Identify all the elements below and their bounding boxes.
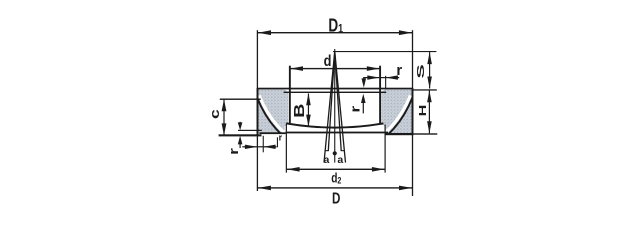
svg-text:r: r xyxy=(227,148,242,155)
dimension B shaft xyxy=(308,94,309,127)
bottom recess line M2 xyxy=(286,132,388,134)
dimension D1 arrow right xyxy=(399,30,412,35)
dimension d2 arrow right xyxy=(372,167,385,172)
dimension r top down arrow xyxy=(362,78,367,87)
S/H top reference line xyxy=(413,89,437,90)
dimension d arrow left xyxy=(290,66,303,71)
sphere surface arc left xyxy=(257,98,280,133)
r left horizontal arrow pointing right xyxy=(245,145,257,149)
dimension c shaft xyxy=(223,99,224,135)
dimension D1 arrow left xyxy=(258,30,271,35)
outer edge / extension line left xyxy=(257,30,258,191)
svg-text:D: D xyxy=(332,191,340,208)
angle line base serif right xyxy=(341,150,345,151)
angle line base serif left xyxy=(325,150,329,151)
dimension D1 line xyxy=(258,32,412,33)
bottom face left segment xyxy=(219,134,262,136)
washer block right section xyxy=(381,89,412,133)
dimension D line xyxy=(258,187,412,188)
svg-text:d: d xyxy=(324,53,332,70)
sliding gap white band right xyxy=(383,95,411,133)
dimension S arrow down xyxy=(427,77,432,89)
top face line L1 xyxy=(257,88,413,90)
sphere surface arc right xyxy=(389,98,412,133)
c top reference line xyxy=(220,99,261,100)
svg-text:c: c xyxy=(208,109,222,119)
svg-text:d2: d2 xyxy=(331,170,341,186)
r left down arrow shaft xyxy=(240,122,241,125)
bottom face right segment xyxy=(385,133,412,135)
r left end stub xyxy=(277,137,278,147)
dimension d2 line xyxy=(287,169,385,170)
contact angle line outer right xyxy=(335,52,346,163)
dimension d arrow right xyxy=(367,66,380,71)
svg-text:r: r xyxy=(279,132,283,142)
svg-text:H: H xyxy=(417,105,429,117)
r left radius-end extension vertical xyxy=(263,136,264,153)
dimension c arrow up xyxy=(222,99,227,111)
dimension r top arrow pointing left xyxy=(386,75,398,79)
sphere bottom arc M1 xyxy=(286,123,383,127)
svg-text:a: a xyxy=(337,154,343,166)
dimension H arrow up xyxy=(427,90,432,102)
sphere centre height line xyxy=(333,51,436,52)
dimension D arrow right xyxy=(399,186,412,191)
contact angle line inner right xyxy=(335,52,341,151)
bore edge / d extension left xyxy=(289,66,291,124)
r left extension line A xyxy=(238,130,262,131)
dimension r mid up arrow xyxy=(361,94,366,103)
dimension d line xyxy=(290,68,379,69)
r left up arrow xyxy=(238,136,243,145)
dimension r top leader vertical xyxy=(363,77,364,81)
r top radius-end extension xyxy=(385,76,386,89)
outer edge / extension line right xyxy=(412,30,413,196)
bore edge / d extension right xyxy=(379,66,381,124)
dimension H arrow down xyxy=(427,121,432,133)
dimension S arrow up xyxy=(427,52,432,64)
contact angle line inner left xyxy=(328,52,334,151)
H bottom reference line xyxy=(413,133,438,134)
d2 bore wall right xyxy=(385,125,386,173)
r left down arrow xyxy=(238,122,243,130)
svg-text:a: a xyxy=(323,154,329,166)
dimension B arrow up xyxy=(306,93,311,105)
sliding gap white band left xyxy=(259,95,287,133)
svg-text:r: r xyxy=(348,106,363,113)
dimension S shaft xyxy=(429,52,430,88)
dimension H shaft xyxy=(429,90,430,133)
dimension c arrow down xyxy=(222,123,227,135)
dimension d2 arrow left xyxy=(287,167,300,172)
svg-text:D1: D1 xyxy=(328,16,343,36)
dimension D arrow left xyxy=(258,186,271,191)
svg-text:S: S xyxy=(415,64,427,78)
bearing axis line xyxy=(334,49,335,163)
d2 bore wall left xyxy=(286,124,287,173)
r left horizontal arrow pointing left xyxy=(263,145,275,149)
dimension r top line xyxy=(364,77,399,78)
sphere centre dot xyxy=(333,151,337,155)
r left up arrow shaft xyxy=(240,142,241,148)
top face chamfer line L2 xyxy=(284,92,387,93)
washer block left section xyxy=(257,89,288,133)
svg-text:r: r xyxy=(396,62,402,79)
dimension r mid shaft xyxy=(363,99,364,113)
dimension r top arrow pointing right xyxy=(367,75,379,79)
dimension B arrow down xyxy=(306,115,311,127)
r left horizontal line xyxy=(242,146,276,147)
contact angle line outer left xyxy=(324,52,335,163)
svg-text:B: B xyxy=(290,104,307,118)
